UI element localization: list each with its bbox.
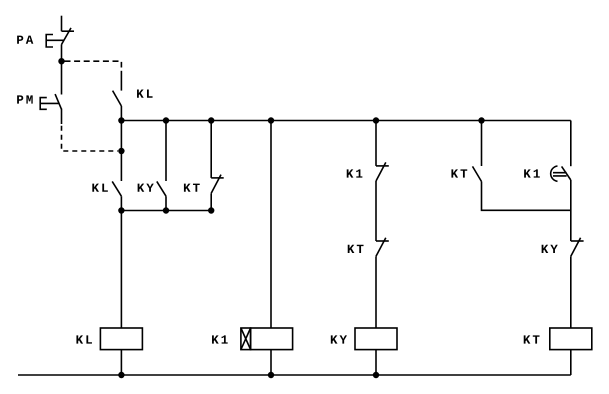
wire below PM (solid part) — [61, 109, 63, 124]
wire bus down to KT contact — [210, 121, 212, 178]
contact KT (NC) moving contact — [376, 238, 386, 257]
node: bus dot at KY branch — [163, 117, 169, 123]
label KL (coil) — [76, 335, 92, 343]
wire bus down to K1 contact (middle branch) — [375, 121, 377, 166]
wire bus down to lower KL contact — [120, 121, 122, 182]
wire coil KL to bottom bus — [120, 350, 122, 375]
wire bus right corner down to K1 contact — [570, 121, 572, 167]
node: bottom bus dot KL — [118, 372, 124, 378]
wire bus down to KY contact — [165, 121, 167, 182]
label KT (right branch) — [451, 169, 467, 177]
wire KL contact top terminal — [120, 71, 122, 91]
pushbutton PA moving contact — [62, 28, 72, 45]
pushbutton PA fixed-contact tick — [62, 30, 75, 32]
pushbutton PA actuator cap — [46, 35, 63, 48]
contact KY (NO, lower group) — [157, 181, 166, 196]
coil K1 latch box with X — [241, 328, 251, 350]
dashed link wire PM to KL branch (bottom) — [62, 126, 119, 151]
node: bottom bus dot KY — [373, 372, 379, 378]
contact KT (NC) moving contact — [211, 175, 221, 194]
node: sub-bus dot KL — [118, 207, 124, 213]
coil KY — [355, 328, 397, 350]
wire K1 contact to KT contact — [375, 181, 377, 241]
wire coil KT to bottom bus — [570, 350, 572, 375]
dashed link wire to KL contact (top) — [65, 61, 122, 67]
contact KT (NO, right branch) — [473, 166, 482, 181]
coil KL — [100, 328, 142, 350]
label KY (right branch) — [542, 245, 558, 253]
contact K1 delay linkage rods — [553, 173, 567, 176]
coil K1 — [251, 328, 293, 350]
contact K1 (NC, middle branch) tick — [376, 165, 389, 167]
node: bus dot at KL branch — [118, 117, 124, 123]
wire bus down to KT contact (right) — [481, 121, 483, 167]
coil KT — [550, 328, 592, 350]
wire sub-bus down to coil KL — [120, 211, 122, 329]
label K1 (coil) — [212, 335, 228, 343]
node: sub-bus dot KY — [163, 207, 169, 213]
wire KT contact to sub-bus — [210, 193, 212, 210]
node: junction dot PA/PM branch — [58, 58, 64, 64]
pushbutton PM actuator cap — [40, 98, 59, 110]
wire coil K1 to bottom bus — [270, 350, 272, 375]
wire KT contact to coil KY — [375, 256, 377, 328]
label KT (lower contact) — [184, 184, 200, 192]
wire KT contact down and right to KY/KT branch — [482, 182, 571, 211]
main bus — [121, 120, 570, 122]
contact KT (NC, lower group) tick — [211, 177, 224, 179]
contact KL (NO, lower group) — [112, 181, 121, 196]
label KY (lower contact) — [138, 184, 154, 192]
bottom bus — [18, 374, 571, 376]
contact KY (NC, right branch) tick — [571, 240, 584, 242]
wire bus down to coil K1 — [270, 121, 272, 329]
label K1 (middle branch) — [347, 169, 363, 177]
pushbutton PA (NC) top terminal wire — [61, 16, 63, 32]
label KL (lower contact) — [92, 184, 108, 192]
wire K1 contact down to KY contact — [570, 180, 572, 241]
label KL (top contact) — [137, 89, 153, 97]
node: bus dot at KT branch — [208, 117, 214, 123]
contact KL (NO, top seal-in) — [113, 91, 122, 106]
node: bottom bus dot K1 — [268, 372, 274, 378]
wire PA to PM — [61, 45, 63, 95]
contact KY (NC) moving contact — [571, 238, 581, 257]
node: bus dot at K1/KT branch — [373, 117, 379, 123]
contact KT (NC, middle branch) tick — [376, 240, 389, 242]
node: bus dot at KT contact branch — [478, 117, 484, 123]
sub-bus (seal-in group) — [121, 210, 211, 212]
label K1 (right branch) — [524, 169, 540, 177]
wire KY contact to sub-bus — [165, 196, 167, 210]
wire KL contact to sub-bus — [120, 196, 122, 210]
pushbutton PM (NO) moving contact — [55, 94, 61, 109]
contact K1 delay device arc — [551, 166, 558, 181]
label PM — [17, 95, 33, 103]
label KY (coil) — [331, 335, 347, 343]
contact K1 (NO with release-delay arc, right) — [562, 166, 571, 180]
contact K1 (NC) moving contact — [376, 162, 386, 181]
wire KY contact to coil KT — [570, 256, 572, 328]
label KT (coil) — [524, 335, 540, 343]
node: sub-bus dot KT — [208, 207, 214, 213]
wire KL contact to main bus — [120, 106, 122, 121]
wire coil KY to bottom bus — [375, 350, 377, 375]
label PA — [17, 36, 33, 44]
node: bus dot at K1 coil branch — [268, 117, 274, 123]
node: junction dot on KL branch at dashed link — [118, 148, 124, 154]
label KT (middle branch) — [348, 245, 364, 253]
